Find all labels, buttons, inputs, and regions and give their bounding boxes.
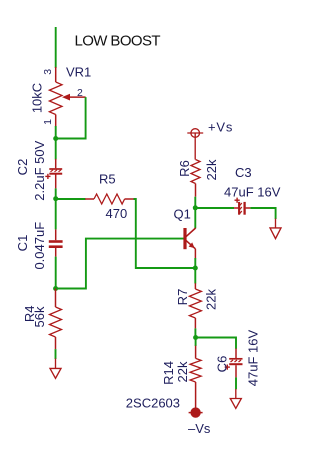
svg-text:1: 1 <box>42 119 54 125</box>
capacitor C2 <box>45 159 62 189</box>
ground under R4 <box>50 359 61 379</box>
wire input vertical to VR1 pin3 <box>55 27 57 68</box>
junction node B C1/R4/base wire <box>53 286 58 291</box>
svg-text:R6: R6 <box>177 160 192 177</box>
resistor R14 <box>190 346 201 408</box>
capacitor C1 <box>49 229 63 256</box>
terminal -Vs <box>189 407 203 417</box>
pin 1 lead <box>55 115 57 128</box>
emitter lead <box>194 249 196 259</box>
wire node D to R14 <box>195 338 197 347</box>
svg-text:3: 3 <box>42 69 54 75</box>
wire R4 to ground <box>55 349 57 359</box>
junction node C emitter/R7/feedback <box>193 266 198 271</box>
svg-text:R14: R14 <box>161 361 176 385</box>
svg-text:C3: C3 <box>235 165 252 180</box>
svg-text:LOW BOOST: LOW BOOST <box>75 33 161 50</box>
svg-text:2.2uF 50V: 2.2uF 50V <box>32 140 47 200</box>
wire R5 to emitter node (feedback vertical) <box>134 199 196 268</box>
wire collector node to C3 <box>195 207 234 209</box>
potentiometer VR1 <box>49 67 85 127</box>
wire R7 to node D <box>194 328 196 338</box>
wire emitter to node C <box>194 258 196 268</box>
capacitor C6 <box>225 349 243 378</box>
base bar <box>183 228 186 249</box>
svg-text:C2: C2 <box>15 159 30 176</box>
pin 3 lead <box>55 67 57 82</box>
plus sign of C3 <box>235 199 240 201</box>
resistor R4 <box>50 289 62 350</box>
svg-text:2SC2603: 2SC2603 <box>126 395 180 410</box>
ground under C6 <box>230 389 241 408</box>
svg-text:10kC: 10kC <box>30 83 45 113</box>
svg-text:C6: C6 <box>215 356 230 373</box>
svg-text:22k: 22k <box>175 361 190 382</box>
wire node B to Q1 base <box>56 239 184 289</box>
junction pot/C2 <box>53 136 58 141</box>
svg-text:2: 2 <box>77 87 83 99</box>
svg-text:470: 470 <box>106 206 128 221</box>
svg-text:+Vs: +Vs <box>208 120 233 135</box>
wire C2 to node A <box>55 188 57 199</box>
wire R6 to collector node <box>194 197 196 208</box>
ground under C3 <box>270 219 281 239</box>
wire collector node down to Q1 <box>194 208 196 228</box>
svg-text:0.047uF: 0.047uF <box>32 222 47 270</box>
resistor R5 <box>85 194 133 204</box>
wire C6 to ground <box>235 377 237 389</box>
wire C1 to node B <box>55 257 57 289</box>
wire pin1 to C2 <box>55 126 57 160</box>
emitter diagonal <box>186 240 196 249</box>
capacitor C3 <box>234 198 251 215</box>
svg-text:R5: R5 <box>99 171 116 186</box>
terminal +Vs <box>187 129 203 160</box>
wire node A to C1 <box>55 199 57 229</box>
plus sign of C6 <box>225 366 230 368</box>
svg-text:22k: 22k <box>204 159 219 180</box>
plus sign of C2 <box>45 175 50 177</box>
junction node A C2/R5/C1 <box>53 196 58 201</box>
wire node C to R7 <box>194 268 196 284</box>
svg-text:47uF 16V: 47uF 16V <box>224 184 281 199</box>
wiper line pin 2 <box>69 96 86 98</box>
svg-text:R7: R7 <box>175 289 190 306</box>
collector diagonal <box>186 228 196 237</box>
zigzag body <box>49 82 62 115</box>
wire C3 to ground <box>250 208 275 219</box>
svg-text:–Vs: –Vs <box>188 421 211 436</box>
junction collector node <box>193 205 198 210</box>
wire pot pin2 loop <box>56 97 86 138</box>
resistor R7 <box>189 283 201 328</box>
junction node D R7/R14/C6 <box>193 335 198 340</box>
emitter arrow of Q1 <box>189 242 195 248</box>
wire node A to R5 <box>56 198 86 200</box>
svg-text:56k: 56k <box>32 306 47 327</box>
wire node D to C6 <box>196 338 236 349</box>
svg-text:C1: C1 <box>15 235 30 252</box>
transistor Q1 <box>185 228 196 258</box>
wiper arrow of VR1 <box>62 94 70 101</box>
resistor R6 <box>191 160 200 197</box>
svg-text:Q1: Q1 <box>174 207 191 222</box>
svg-text:22k: 22k <box>204 289 219 310</box>
svg-text:VR1: VR1 <box>66 65 91 80</box>
svg-text:47uF 16V: 47uF 16V <box>246 329 261 386</box>
